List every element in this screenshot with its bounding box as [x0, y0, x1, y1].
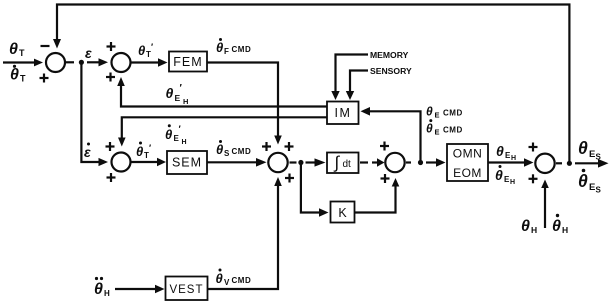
svg-text:E: E [435, 128, 440, 137]
svg-text:ε: ε [85, 45, 92, 61]
svg-text:θ: θ [426, 105, 433, 119]
wire: S2 to FEM [131, 58, 168, 67]
wire: FEM output right then down through crossings into S4 top [207, 63, 282, 145]
svg-text:T: T [20, 74, 26, 84]
svg-text:CMD: CMD [232, 45, 252, 54]
svg-text:θ: θ [552, 218, 561, 235]
svg-text:θ: θ [9, 41, 18, 58]
minus sign at S1 [41, 45, 50, 47]
wire: S4 output dash-dot to integrator [290, 158, 326, 166]
svg-text:ε: ε [84, 144, 91, 160]
plus sign at S5 bottom-left [381, 174, 390, 183]
svg-text:′: ′ [149, 143, 151, 153]
label eps-dot [84, 143, 91, 161]
wire: S6 output through node to right edge [556, 159, 609, 168]
block text integrator [334, 153, 352, 172]
label theta_E'H (upper feedback) [166, 83, 189, 106]
wire: node after S4 down to K input [301, 164, 329, 217]
summing junction S5 [385, 153, 404, 172]
block VEST [166, 277, 208, 301]
wire: S3 to SEM [131, 158, 167, 167]
svg-text:K: K [338, 206, 347, 220]
svg-text:CMD: CMD [232, 147, 252, 156]
svg-text:E: E [174, 134, 180, 143]
label theta_H (head input) [521, 218, 537, 235]
plus sign at S3 bottom [107, 173, 116, 182]
svg-text:θ: θ [166, 85, 174, 101]
label theta_E CMD [426, 105, 463, 120]
svg-text:F: F [224, 47, 229, 56]
svg-text:dt: dt [343, 159, 352, 170]
wire: top feedback from output node down into S1 (negative) [53, 5, 569, 164]
svg-text:θ: θ [426, 122, 433, 136]
svg-text:′: ′ [151, 42, 153, 52]
node eps junction dot [79, 60, 84, 65]
block integrator [327, 153, 359, 174]
svg-text:E: E [435, 111, 440, 120]
svg-text:θ: θ [495, 167, 503, 183]
svg-text:θ: θ [216, 271, 223, 286]
block IM [327, 102, 359, 125]
label theta_ES (output upper) [578, 138, 602, 162]
wire: MEMORY input down into IM [331, 55, 368, 101]
svg-text:OMN: OMN [453, 147, 483, 161]
plus sign at S3 top [106, 142, 115, 151]
plus sign at S4 top-right [285, 142, 294, 151]
plus sign at S2 bottom [106, 73, 115, 82]
svg-text:θ: θ [216, 142, 223, 157]
wire: S1 to node eps (dash-dot) then arrow into S2 [66, 58, 108, 66]
wire: SENSORY input down into IM [346, 71, 368, 101]
label theta-dot_ES (output lower) [578, 169, 602, 195]
svg-text:θ: θ [10, 67, 19, 84]
svg-text:θ: θ [496, 143, 504, 159]
label theta-dot_T [10, 65, 26, 84]
svg-text:H: H [182, 139, 187, 146]
svg-text:SEM: SEM [172, 156, 202, 170]
wire: IM lower output (theta-dot_E'H) left then down into S3 top [118, 117, 327, 146]
wire: theta-ddot head input arrow into VEST [115, 285, 165, 294]
label theta_EH (OMN output upper) [496, 143, 516, 162]
svg-text:H: H [562, 225, 568, 235]
svg-text:H: H [104, 289, 110, 298]
wire: S5 output dash-dot to OMN EOM [406, 158, 446, 167]
wire: integrator dashed output to S5 [360, 158, 385, 167]
wire: head input up into S6 bottom [541, 180, 549, 229]
block text OMN EOM [453, 147, 483, 181]
label theta-dot_H (head input) [552, 214, 568, 235]
svg-text:H: H [511, 155, 516, 162]
block OMN EOM [447, 144, 488, 181]
svg-text:θ: θ [165, 127, 172, 142]
summing junction S6 [535, 154, 554, 173]
svg-text:VEST: VEST [169, 284, 203, 296]
label theta-dot_V CMD [216, 269, 252, 288]
plus sign at S1 [40, 74, 49, 83]
wire: OMN EOM output arrow into S6 [488, 158, 534, 166]
svg-text:CMD: CMD [443, 109, 463, 118]
label theta-dot_EH (OMN output lower) [495, 165, 515, 186]
summing junction S3 [112, 153, 131, 172]
wire: theta_T input arrow into summing junction S1 [3, 59, 43, 67]
svg-text:θ: θ [578, 138, 588, 158]
plus sign at S4 top-left [262, 142, 271, 151]
summing junction S4 (central) [268, 153, 287, 172]
svg-text:T: T [19, 48, 25, 58]
svg-text:S: S [596, 186, 602, 195]
label theta_T [9, 41, 25, 58]
svg-text:MEMORY: MEMORY [370, 50, 409, 60]
label theta_T prime [138, 42, 153, 59]
node E CMD junction dot [418, 160, 423, 165]
svg-text:EOM: EOM [453, 166, 482, 180]
svg-text:CMD: CMD [232, 276, 252, 285]
svg-text:H: H [183, 97, 188, 106]
svg-text:S: S [596, 153, 602, 162]
svg-text:θ: θ [94, 281, 103, 298]
svg-text:CMD: CMD [443, 126, 463, 135]
block SEM [167, 151, 207, 174]
plus sign at S6 top-left [529, 143, 538, 152]
label theta-dot_F CMD [216, 38, 251, 56]
output node junction dot [567, 161, 572, 166]
svg-text:E: E [589, 149, 595, 160]
wire: VEST output right then up into S4 bottom [208, 177, 282, 289]
plus sign at S5 top-left [380, 142, 389, 151]
svg-text:H: H [531, 225, 537, 235]
plus sign at S2 top [107, 42, 116, 51]
svg-text:E: E [589, 182, 595, 193]
wire: node E CMD up then left arrow into IM [361, 107, 421, 161]
svg-text:θ: θ [521, 218, 530, 235]
svg-text:θ: θ [138, 43, 145, 58]
svg-text:θ: θ [136, 144, 143, 159]
svg-text:IM: IM [335, 106, 352, 120]
block K [331, 202, 355, 223]
label theta-dot_E CMD [426, 119, 463, 136]
summing junction S1 [46, 53, 65, 72]
svg-text:SENSORY: SENSORY [370, 66, 412, 76]
svg-text:V: V [224, 278, 230, 287]
label theta-dot_E'H (lower feedback) [165, 124, 187, 146]
label theta-ddot_H (vestibular input) [94, 277, 110, 298]
plus sign at S6 bottom-left [529, 174, 538, 183]
svg-text:θ: θ [578, 171, 588, 191]
label theta-dot_T prime [136, 142, 151, 161]
wire: SEM output arrow into S4 [207, 158, 267, 167]
label theta-dot_S CMD [216, 140, 251, 158]
svg-text:FEM: FEM [173, 55, 202, 69]
summing junction S2 [112, 53, 131, 72]
svg-text:H: H [510, 179, 515, 186]
wire: IM upper output (theta_E'H) left then up into S2 bottom [117, 77, 327, 107]
wire: K output right then up into S5 bottom [355, 178, 400, 213]
svg-text:E: E [175, 93, 181, 103]
svg-text:S: S [224, 149, 230, 158]
block FEM [169, 52, 207, 72]
node after S4 junction dot [298, 160, 303, 165]
wire: node eps down to eps-dot row, arrow into S3 [81, 64, 108, 166]
plus sign at S4 bottom-right [285, 174, 294, 183]
svg-text:θ: θ [216, 40, 223, 55]
